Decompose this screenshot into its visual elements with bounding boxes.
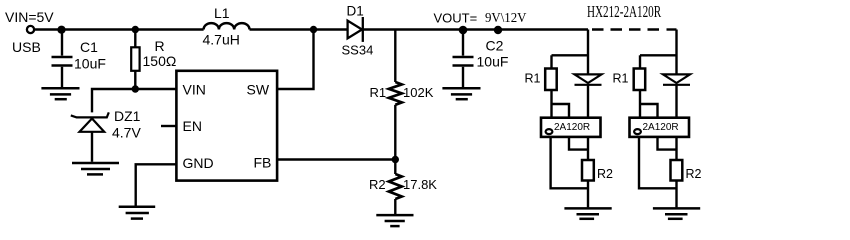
svg-text:R: R (155, 38, 165, 54)
capacitor C2 (453, 30, 474, 88)
diode (sub2) (663, 74, 690, 84)
wire sub2 diode to box (675, 85, 677, 118)
node junction SW rail (310, 26, 317, 33)
resistor R2 17.8K zigzag (389, 174, 402, 199)
ground (C2) (442, 88, 480, 99)
svg-text:VOUT=: VOUT= (434, 11, 478, 26)
svg-text:C2: C2 (486, 38, 504, 54)
svg-text:R1: R1 (613, 72, 629, 86)
pin-1 dot (sub2 box) (634, 129, 641, 134)
wire node to VIN pin (135, 88, 176, 90)
node junction R top (132, 26, 139, 33)
wire R1 to FB node (394, 105, 396, 160)
svg-text:102K: 102K (403, 85, 434, 100)
zener diode DZ1 (71, 112, 109, 131)
diode (sub1) (575, 74, 602, 84)
IC U1 regulator body (176, 71, 277, 181)
wire sub2 R2 to ground (675, 181, 677, 208)
wire sub1 R2 to ground (587, 181, 589, 208)
svg-text:D1: D1 (347, 3, 364, 18)
svg-text:10uF: 10uF (74, 56, 106, 72)
svg-text:VIN=5V: VIN=5V (5, 9, 54, 25)
svg-text:4.7V: 4.7V (112, 125, 141, 141)
wire SW pin riser (277, 30, 313, 90)
svg-text:EN: EN (183, 118, 202, 134)
wire sub1 box pin2 step down (569, 137, 588, 150)
node junction FB divider (392, 156, 399, 163)
svg-text:USB: USB (12, 39, 41, 55)
svg-text:R2: R2 (686, 167, 702, 181)
svg-text:4.7uH: 4.7uH (203, 32, 240, 48)
wire rail corner into sub-circuit 2 (667, 28, 677, 30)
wire sub1 box pin1 down to ground node (551, 137, 588, 188)
wire sub2 main riser (675, 30, 677, 74)
resistor R1 (sub1) (545, 69, 557, 91)
svg-text:VIN: VIN (183, 82, 206, 98)
wire sub1 box pin3 to R2 (587, 137, 589, 160)
svg-text:2A120R: 2A120R (643, 122, 679, 133)
wire sub2 R1 top stub (639, 55, 641, 68)
wire sub1 diode to box (587, 85, 589, 118)
svg-text:150Ω: 150Ω (143, 53, 177, 69)
resistor R1 102K zigzag (389, 82, 402, 105)
ground (sub2) (653, 208, 700, 218)
wire top rail left (terminal to L1) (35, 28, 204, 30)
optocoupler box 2A120R (sub1) (541, 118, 601, 137)
ground (C1) (41, 88, 79, 99)
resistor R2 (sub2) (671, 160, 683, 181)
wire DZ1 to ground (91, 132, 93, 162)
svg-text:9V\12V: 9V\12V (485, 10, 527, 26)
optocoupler box 2A120R (sub2) (630, 118, 690, 137)
inductor L1 (204, 23, 250, 29)
resistor R2 (sub1) (582, 160, 594, 181)
ground (IC GND) (119, 207, 156, 219)
svg-text:GND: GND (183, 155, 214, 171)
svg-text:SS34: SS34 (342, 42, 374, 57)
pin-1 dot (sub1 box) (546, 129, 553, 134)
wire sub2 box pin1 down to ground node (639, 137, 676, 188)
svg-text:10uF: 10uF (477, 54, 509, 70)
wire R2 to ground (394, 199, 396, 214)
wire node to R2 (394, 160, 396, 175)
node VOUT junction C2 (459, 26, 468, 35)
node VIN junction C1 (57, 26, 65, 34)
diode D1 SS34 (348, 17, 363, 42)
wire sub1 main riser (587, 30, 589, 74)
node VOUT junction 2 (494, 26, 502, 34)
svg-text:R2: R2 (597, 167, 613, 181)
wire R1 riser from rail (394, 30, 396, 83)
wire GND pin to ground (136, 164, 177, 206)
ground (sub1) (564, 208, 611, 218)
svg-text:HX212-2A120R: HX212-2A120R (587, 3, 662, 22)
svg-text:R2: R2 (369, 177, 386, 192)
wire sub1 R1 top stub (550, 55, 552, 68)
ground (DZ1) (72, 163, 119, 174)
capacitor C1 (52, 30, 73, 88)
wire node to DZ1 (92, 89, 135, 112)
resistor R 150ohm (131, 30, 139, 90)
wire sub1 R1 bottom to box (550, 90, 552, 118)
wire sub2 R1 branch (640, 54, 677, 56)
wire sub2 box pin3 to R2 (675, 137, 677, 160)
ground (R2) (376, 215, 413, 226)
wire dashed rail to HX212 block (592, 28, 665, 30)
terminal USB input (27, 26, 34, 33)
svg-text:FB: FB (254, 155, 272, 171)
wire FB pin to node (277, 158, 395, 160)
pin EN stub (161, 125, 176, 127)
svg-text:C1: C1 (80, 39, 98, 55)
wire sub2 R1 bottom to box (639, 90, 641, 118)
svg-text:17.8K: 17.8K (403, 177, 437, 192)
wire sub1 step to pin2 (552, 104, 570, 118)
node junction below R (132, 85, 139, 92)
svg-text:L1: L1 (214, 5, 230, 21)
svg-text:R1: R1 (525, 72, 541, 86)
resistor R1 (sub2) (634, 69, 646, 91)
wire top rail (L1 to sub-circuit 1) (250, 28, 589, 30)
svg-text:DZ1: DZ1 (114, 108, 141, 124)
svg-text:R1: R1 (370, 85, 387, 100)
svg-text:2A120R: 2A120R (554, 122, 590, 133)
wire sub1 R1 branch (552, 54, 589, 56)
svg-text:SW: SW (247, 82, 270, 98)
wire sub2 box pin2 step down (658, 137, 677, 150)
wire sub2 step to pin2 (640, 104, 658, 118)
